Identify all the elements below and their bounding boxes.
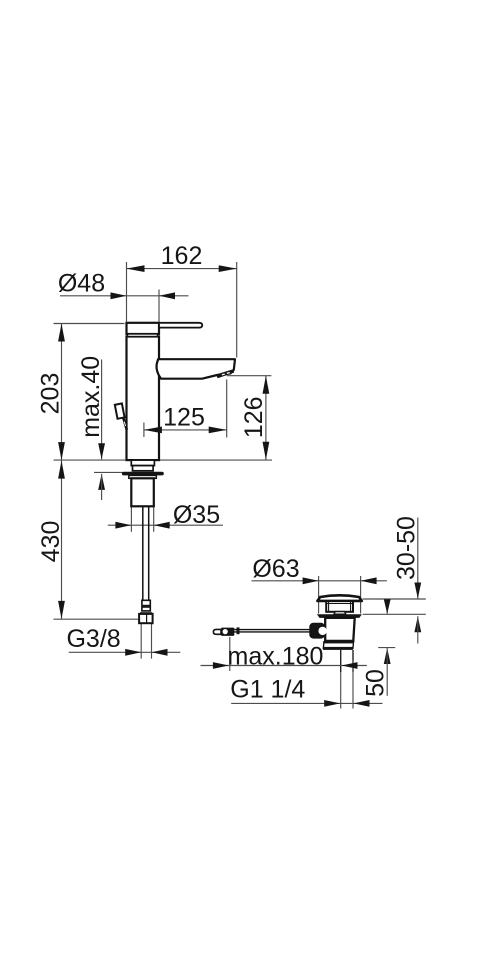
spout aerator: [216, 369, 234, 378]
svg-text:Ø48: Ø48: [58, 270, 105, 298]
extension line: lever top plane: [54, 323, 125, 325]
dimension O35 extension lines: [130, 507, 132, 532]
lever rod tip: [213, 629, 221, 634]
dimension 203 top arrow: [58, 324, 65, 342]
dimension G3/8 right arrow: [152, 649, 168, 656]
dimension G1 1/4 line: [231, 702, 382, 704]
svg-text:126: 126: [240, 396, 268, 438]
dimension 125 left extension: [143, 423, 145, 438]
dimension 50 up arrow: [384, 648, 391, 664]
dimension max.180 left arrow: [213, 662, 229, 669]
drain plug cap: [317, 595, 361, 601]
dimension 125 right extension: [226, 380, 228, 438]
supply hose wall left: [142, 506, 144, 600]
dimension O35 left arrow: [115, 522, 131, 529]
dimension 50 lower tail: [386, 648, 388, 696]
faucet lever arm: [159, 323, 202, 328]
dimension O63 extension lines: [318, 576, 320, 614]
drain seat bump: [334, 612, 346, 615]
dimension O35 right arrow: [154, 522, 170, 529]
drain collar upper band: [324, 641, 354, 644]
tailpipe wall right: [352, 650, 354, 672]
svg-text:max.40: max.40: [77, 356, 105, 438]
dimension G3/8 left arrow: [125, 649, 141, 656]
dimension G1 1/4 left arrow: [324, 700, 340, 707]
dimension O48 right arrow: [159, 292, 175, 299]
extension line: plug cap top plane: [363, 598, 426, 600]
faucet body: [127, 337, 160, 461]
dimension O63 right arrow: [361, 577, 377, 584]
dimension G3/8 extension lines: [140, 623, 142, 658]
hose nut: [139, 614, 153, 623]
dimension 30-50 up arrow: [414, 616, 421, 632]
faucet lever base block: [127, 323, 160, 334]
drain collar side right: [352, 641, 355, 649]
dimension O63 line: [252, 580, 387, 582]
svg-text:G1 1/4: G1 1/4: [230, 676, 305, 704]
supply hose wall right: [148, 506, 150, 600]
dimension 430 bottom extension: [54, 618, 140, 620]
base neck lower: [133, 466, 154, 471]
extension line: drain flange plane: [363, 613, 426, 615]
faucet cap ring: [128, 334, 158, 337]
dimension 125 right arrow: [209, 427, 227, 434]
dimension 162 right arrow: [219, 265, 237, 272]
svg-text:G3/8: G3/8: [66, 625, 120, 653]
dimension 430 line: [61, 461, 63, 619]
dimension 203 line: [61, 324, 63, 461]
extension line: body right edge (O48 right): [158, 290, 160, 322]
dimension 203 bottom arrow: [58, 442, 65, 460]
svg-text:max.180: max.180: [228, 643, 324, 671]
faucet spout: [157, 359, 235, 379]
dimension 30-50 lower tail: [417, 616, 419, 643]
dimension 125 line: [144, 429, 227, 431]
dimension O35 line: [108, 524, 223, 526]
dimension O63 left arrow: [303, 577, 319, 584]
dimension max.40 lower extension: [94, 471, 123, 473]
lever rod collar: [237, 627, 240, 634]
lever rod end block: [221, 628, 234, 636]
dimension max.180 left extension: [229, 637, 231, 671]
hose nut bevel line: [140, 612, 152, 614]
dimension G1 1/4 right arrow: [354, 700, 370, 707]
svg-text:50: 50: [361, 669, 389, 697]
dimension 162 line: [127, 268, 237, 270]
hose crimp sleeve lower: [142, 607, 150, 611]
lever rod lower line: [234, 631, 311, 633]
dimension 126 top extension: [227, 375, 272, 377]
dimension 126 top arrow: [263, 376, 270, 394]
dimension 126 bottom arrow: [263, 442, 270, 460]
svg-text:Ø35: Ø35: [173, 501, 220, 529]
dimension 50 upper tail: [386, 599, 388, 614]
mounting washer: [122, 472, 164, 476]
drain pull rod stem: [123, 418, 127, 430]
aerator slit 1: [222, 373, 225, 375]
extension line: spout tip (162 right): [236, 262, 238, 358]
dimension 430 bottom arrow: [58, 601, 65, 619]
dimension G3/8 line: [69, 651, 181, 653]
tailpipe extension left: [340, 672, 342, 709]
svg-text:430: 430: [37, 521, 65, 563]
drain collar side left: [322, 641, 325, 649]
dimension 30-50 upper line: [417, 518, 419, 599]
rod ball joint: [309, 623, 325, 639]
dimension max.180 right arrow: [342, 662, 358, 669]
tailpipe extension right: [352, 660, 354, 709]
extension line: faucet left edge (162 / O48): [126, 262, 128, 322]
svg-text:162: 162: [161, 242, 203, 270]
lever rod end hole: [223, 629, 228, 634]
drain neck inner wall right: [350, 602, 352, 612]
drain collar lower band: [323, 647, 353, 650]
lever rod upper line: [234, 629, 311, 631]
aerator slit 2: [227, 372, 230, 374]
dimension O48 left arrow: [111, 292, 127, 299]
dimension 30-50 down arrow: [414, 583, 421, 599]
dimension max.40 line lower tail: [101, 474, 103, 500]
drain flange: [317, 614, 362, 618]
dimension max.40 down arrow: [98, 443, 105, 459]
drain neck: [326, 601, 353, 612]
drain pull rod knob: [115, 403, 125, 418]
dimension 125 left arrow: [144, 427, 162, 434]
pull rod stem slit: [124, 422, 125, 427]
base neck upper: [131, 460, 154, 466]
hose crimp sleeve upper: [142, 600, 150, 605]
ball joint socket: [318, 627, 326, 635]
extension line: mounting plane: [54, 459, 273, 461]
washer flange: [129, 475, 157, 478]
svg-text:30-50: 30-50: [393, 516, 421, 580]
dimension O48 line: [60, 295, 189, 297]
dimension max.40 line upper: [101, 360, 103, 460]
hose nut facet line: [146, 615, 148, 623]
tailpipe wall left: [340, 650, 342, 672]
dimension max.40 up arrow: [98, 474, 105, 490]
drain neck inner wall left: [328, 602, 330, 612]
dimension 50 down arrow: [384, 599, 391, 614]
dimension 50 bottom extension: [378, 647, 395, 649]
dimension 126 line: [265, 376, 267, 460]
svg-text:203: 203: [37, 373, 65, 415]
threaded shank: [131, 478, 154, 506]
dimension max.180 line: [201, 665, 367, 667]
svg-text:125: 125: [163, 404, 205, 432]
dimension 430 top arrow: [58, 461, 65, 479]
svg-text:Ø63: Ø63: [252, 555, 299, 583]
dimension 162 left arrow: [127, 265, 145, 272]
drain body: [325, 618, 355, 641]
drain neck shoulder line: [326, 602, 353, 604]
